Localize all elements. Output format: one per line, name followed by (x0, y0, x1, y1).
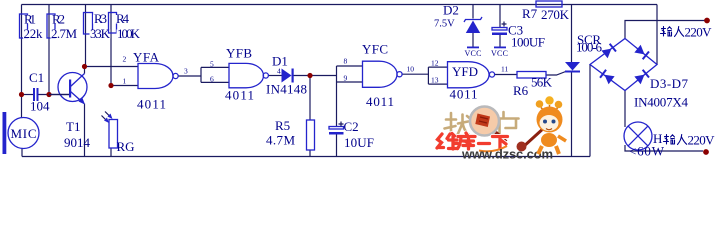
svg-text:10: 10 (407, 65, 415, 74)
svg-text:9: 9 (344, 74, 348, 83)
wire lamp to AC input terminal (625, 145, 703, 151)
watermark find-chip logo (445, 107, 519, 143)
wire bridge bottom to lamp (624, 91, 626, 128)
svg-text:5: 5 (210, 60, 214, 69)
wire R1 column (21, 5, 23, 95)
pin 3 YFA output (184, 67, 188, 76)
svg-text:13: 13 (431, 76, 439, 85)
resistor R6 (513, 72, 553, 99)
nand gate YFC (4011) (362, 42, 402, 110)
svg-text:R6: R6 (513, 83, 529, 98)
wire bridge top to AC input terminal (625, 21, 705, 39)
svg-text:11: 11 (501, 65, 508, 74)
node junction base-R2 (46, 92, 51, 97)
capacitor C2 (329, 119, 374, 150)
wire D2 column top (472, 5, 474, 19)
svg-text:D1: D1 (272, 54, 288, 69)
svg-text:YFD: YFD (452, 64, 478, 79)
svg-text:2: 2 (123, 55, 127, 64)
svg-text:YFB: YFB (226, 46, 252, 61)
svg-text:3: 3 (184, 67, 188, 76)
nand gate YFB (4011) (225, 46, 268, 103)
pin 9 YFC (344, 74, 348, 83)
resistor R4 (109, 11, 141, 41)
svg-text:104: 104 (30, 99, 50, 114)
svg-text:4011: 4011 (450, 87, 478, 102)
wire emitter to ground (84, 104, 86, 157)
electret microphone MIC (3, 112, 40, 154)
svg-text:VCC: VCC (491, 49, 508, 58)
zener diode D2 (434, 3, 482, 59)
pin 1 YFA (123, 77, 127, 86)
bridge rectifier D3-D7 IN4007X4 (590, 39, 689, 110)
svg-text:4011: 4011 (366, 94, 394, 109)
capacitor C3 (491, 22, 545, 59)
label AC input 220V bottom (664, 133, 716, 148)
transistor T1 (49, 73, 91, 151)
thyristor SCR 100-6 (565, 32, 603, 73)
svg-text:R7: R7 (522, 6, 538, 21)
wire SCR anode (571, 5, 573, 63)
svg-text:R5: R5 (275, 118, 290, 133)
wire bridge right corner to rail (656, 5, 658, 65)
svg-text:VCC: VCC (465, 49, 482, 58)
wire bridge left corner to ground rail (589, 65, 591, 157)
photoresistor RG (102, 112, 135, 155)
pin 8 YFC (344, 57, 348, 66)
svg-text:MIC: MIC (11, 126, 37, 141)
node AC terminal top right (704, 18, 710, 24)
diode D1 IN4148 (266, 54, 307, 97)
pin 13 YFD (431, 76, 439, 85)
wire R5 column (309, 76, 311, 157)
pin 10 YFC output (407, 65, 415, 74)
node junction C1-MIC (19, 92, 24, 97)
pin 4 YFB output (277, 67, 281, 76)
wire collector to YFA input 2 (85, 67, 139, 74)
svg-text:C2: C2 (344, 119, 359, 134)
node AC terminal bottom right (703, 149, 709, 155)
svg-text:IN4007X4: IN4007X4 (634, 95, 689, 110)
svg-text:220V: 220V (688, 133, 716, 148)
wire MIC to C1 junction (21, 95, 23, 119)
wire C3 column top (499, 5, 501, 28)
svg-text:22k: 22k (24, 26, 44, 41)
svg-text:IN4148: IN4148 (266, 82, 307, 97)
svg-text:T1: T1 (66, 119, 80, 134)
wire D1 to node (294, 75, 337, 77)
svg-text:R2: R2 (52, 12, 65, 27)
resistor R7 (522, 1, 570, 22)
svg-text:4.7M: 4.7M (266, 133, 295, 148)
wire MIC bottom (21, 149, 23, 157)
wire SCR cathode to ground rail (571, 72, 573, 157)
svg-text:270K: 270K (541, 7, 570, 22)
svg-text:D3-D7: D3-D7 (650, 76, 689, 91)
svg-text:D2: D2 (443, 3, 459, 18)
nand gate YFA (4011) (133, 50, 178, 112)
resistor R2 (47, 12, 78, 42)
svg-text:R4: R4 (116, 11, 130, 26)
wire R4 column (110, 5, 112, 86)
svg-text:RG: RG (117, 139, 135, 154)
lamp H (624, 122, 665, 159)
svg-text:YFC: YFC (362, 42, 388, 57)
watermark mascot (517, 96, 567, 154)
svg-text:2.7M: 2.7M (51, 26, 77, 41)
resistor R3 (84, 11, 111, 41)
pin 11 YFD output (501, 65, 508, 74)
svg-text:100-6: 100-6 (576, 40, 603, 55)
svg-text:R1: R1 (24, 12, 36, 27)
svg-text:R3: R3 (94, 11, 107, 26)
wire YFA output to YFB fork (178, 67, 229, 82)
svg-text:7.5V: 7.5V (434, 19, 455, 30)
pin 12 YFD (431, 59, 439, 68)
svg-text:9014: 9014 (64, 135, 91, 150)
pin 6 YFB (210, 75, 214, 84)
wire R3 column (85, 5, 87, 67)
svg-text:<60W: <60W (629, 144, 665, 159)
resistor R5 (266, 118, 315, 150)
node junction R4-RG (108, 83, 113, 88)
svg-text:YFA: YFA (133, 50, 160, 65)
wire RG bottom (110, 148, 112, 157)
svg-text:12: 12 (431, 59, 439, 68)
svg-text:220V: 220V (685, 25, 713, 40)
wire C1 link (22, 94, 70, 96)
pin 5 YFB (210, 60, 214, 69)
svg-text:4011: 4011 (225, 88, 254, 103)
node junction D1-R5 (307, 73, 312, 78)
wire R6 to SCR gate (546, 71, 567, 75)
wire YFC output to YFD fork (402, 67, 447, 84)
svg-text:56K: 56K (531, 75, 553, 90)
wire RG node to YFA input 1 (111, 85, 138, 87)
svg-text:33K: 33K (90, 26, 111, 41)
capacitor C1 (29, 70, 50, 114)
wire bottom ground rail (22, 156, 590, 158)
watermark weiku text (437, 133, 508, 151)
wire R2 column (48, 5, 50, 95)
resistor R1 (20, 12, 44, 42)
label AC input 220V top (661, 25, 713, 40)
svg-text:C1: C1 (29, 70, 44, 85)
svg-text:10UF: 10UF (344, 135, 374, 150)
svg-text:4011: 4011 (137, 97, 166, 112)
nand gate YFD (4011) (448, 62, 495, 102)
wire YFB output to D1 (268, 75, 281, 77)
pin 2 YFA (123, 55, 127, 64)
wire YFD output to R6 (495, 74, 517, 76)
node junction collector-R3 (82, 64, 87, 69)
wire YFC input fork and C2 column (337, 66, 363, 157)
svg-text:100K: 100K (117, 26, 141, 41)
watermark dzsc url (461, 147, 553, 162)
svg-text:100UF: 100UF (511, 35, 545, 50)
svg-text:6: 6 (210, 75, 214, 84)
svg-text:8: 8 (344, 57, 348, 66)
wire top supply rail (22, 4, 658, 6)
svg-text:1: 1 (123, 77, 127, 86)
